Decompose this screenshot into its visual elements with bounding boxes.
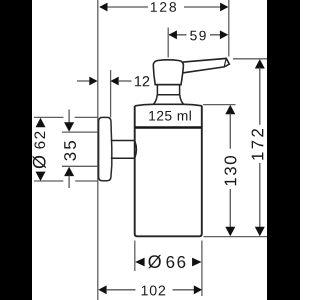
dimension 102 (bottom) — [98, 285, 202, 295]
extension line top of 35 — [62, 131, 98, 133]
extension line bottom of 130/172 (bottle bottom level) — [204, 236, 268, 238]
label text 125 ml — [149, 111, 191, 121]
extension line above plate front (for 12) — [110, 70, 112, 117]
support arm between plate and bottle — [111, 141, 137, 159]
wall extension line (left of 128 / 102) — [97, 0, 99, 300]
pump neck — [157, 85, 180, 95]
dimension 59 (pump handle) — [169, 30, 229, 40]
right black margin bar — [267, 0, 300, 300]
bottle shoulder / top rim — [135, 104, 202, 106]
dimension 128 (top) — [99, 2, 228, 12]
extension line top of 130 (bottle top level) — [203, 104, 236, 106]
extension line left of D66 (bottle left) — [134, 241, 136, 272]
dimension D62 (plate diameter, rotated) — [33, 118, 46, 181]
dimension 12 (wall to plate front) — [77, 76, 149, 86]
pump body (head) — [153, 60, 183, 85]
wall plate (side view, rounded) — [99, 117, 112, 180]
dimension D66 (bottle diameter, bottom) — [135, 255, 201, 268]
pump handle (lever) — [182, 58, 229, 73]
left black margin bar — [0, 0, 32, 300]
extension line top of D62 (plate top) — [34, 116, 99, 118]
dimension 35 (rotated, outside arrows) — [64, 110, 76, 189]
dimension 172 (overall height, rotated) — [252, 59, 265, 236]
extension line bottom of D62 (plate bottom) — [34, 180, 99, 182]
bottle body outline — [135, 106, 202, 237]
extension line top of 172 (handle top level) — [233, 58, 267, 60]
extension line bottom of 35 — [62, 165, 98, 167]
extension line right of D66/102 (bottle right) — [201, 241, 203, 297]
pump flange / collar — [153, 95, 183, 105]
dimension 130 (bottle height, rotated) — [225, 105, 237, 236]
extension line left of 59 (pump top) — [167, 28, 169, 58]
bottle label bottom line (thick) — [135, 126, 202, 129]
extension line right of 128/59 (handle tip) — [228, 0, 230, 57]
